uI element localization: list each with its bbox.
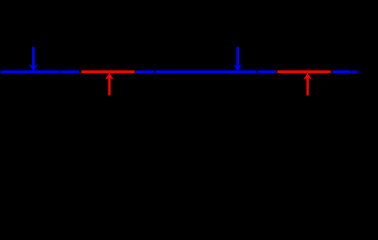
up arrow A2 (red)	[105, 73, 114, 96]
axis segment S8 (blue)	[333, 70, 351, 73]
down arrow A1 (blue)	[29, 47, 38, 71]
axis segment S2 (blue)	[61, 70, 79, 73]
axis segment S1 (blue, increasing region)	[1, 70, 59, 73]
axis segment S3 (red, decreasing region)	[81, 70, 135, 73]
axis segment S4 (blue)	[136, 70, 154, 73]
tick gap T1 (dimmed)	[59, 70, 61, 73]
axis segment S9 (blue, fading right end)	[352, 70, 360, 73]
down arrow A3 (blue)	[233, 47, 242, 71]
up arrow A4 (red)	[303, 73, 312, 96]
axis segment S7 (red, decreasing region)	[277, 70, 330, 73]
axis segment S6 (blue)	[257, 70, 276, 73]
axis segment S5 (blue, long middle region)	[156, 70, 256, 73]
